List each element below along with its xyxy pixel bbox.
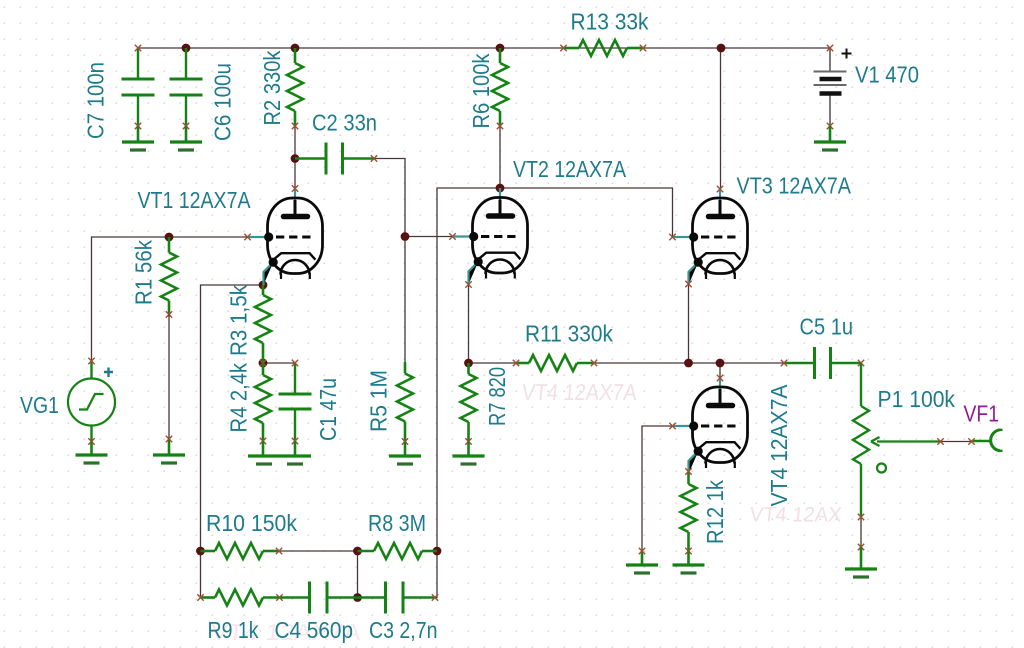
svg-text:R7 820: R7 820 <box>484 367 510 426</box>
wire VT4 anode feed <box>719 363 721 378</box>
resistor R11 <box>516 355 594 371</box>
resistor R10 <box>201 543 280 559</box>
svg-text:R11 330k: R11 330k <box>525 321 613 347</box>
wire C7 ground stub <box>137 126 140 142</box>
resistor R9 <box>201 590 280 606</box>
connector VF1 <box>972 430 1003 451</box>
ground (R5) <box>389 456 421 464</box>
node bus/R2 <box>291 44 300 53</box>
capacitor C5 <box>784 347 861 379</box>
node VT4 anode/C5 <box>716 359 725 368</box>
svg-text:R2 330k: R2 330k <box>259 50 285 125</box>
wire P1 bottom lead <box>860 517 862 547</box>
wire C1 ground stub <box>294 441 297 456</box>
resistor R2 <box>287 48 303 126</box>
svg-text:C5 1u: C5 1u <box>800 314 854 340</box>
triode tube VT3 <box>673 189 748 286</box>
svg-text:R1 56k: R1 56k <box>131 240 157 305</box>
node bus/C6 <box>182 44 191 53</box>
svg-text:C2 33n: C2 33n <box>312 110 377 136</box>
svg-text:C1 47u: C1 47u <box>315 378 341 441</box>
wire R8 node to C4 node <box>357 551 359 598</box>
svg-text:R10 150k: R10 150k <box>206 510 297 536</box>
wire R10 to R8 node <box>279 550 358 552</box>
capacitor C6 <box>170 48 203 126</box>
svg-text:VT1 12AX7A: VT1 12AX7A <box>138 187 252 213</box>
triode tube VT1 <box>248 189 323 286</box>
wire R6 bottom to VT2 anode <box>499 126 501 188</box>
resistor R7 <box>461 363 477 442</box>
svg-text:C3 2,7n: C3 2,7n <box>369 617 438 643</box>
wire C6 ground stub <box>185 126 188 142</box>
ground (R1) <box>153 455 185 463</box>
svg-text:VT2 12AX7A: VT2 12AX7A <box>513 156 627 182</box>
svg-text:R12 1k: R12 1k <box>702 480 728 544</box>
svg-text:R6 100k: R6 100k <box>468 53 494 128</box>
node feedback/R10 <box>196 547 205 556</box>
svg-text:P1 100k: P1 100k <box>878 386 956 412</box>
svg-text:VT4 12AX7A: VT4 12AX7A <box>520 379 638 405</box>
node VT1 cathode <box>259 281 268 290</box>
resistor R1 <box>161 237 177 315</box>
wire R4 ground stub <box>262 441 265 456</box>
signal source VG1 <box>68 361 115 442</box>
node R3/R4/C1 <box>259 359 268 368</box>
node R7/R11 <box>464 359 473 368</box>
resistor R6 <box>492 48 508 126</box>
node R2/C2 <box>291 154 300 163</box>
svg-text:VT4 12AX7A: VT4 12AX7A <box>766 384 792 507</box>
label VG1 plus <box>104 368 113 378</box>
wire VT3 cathode down <box>688 284 690 363</box>
capacitor C2 <box>295 143 374 175</box>
resistor R12 <box>681 472 697 552</box>
ground (V1) <box>814 142 846 150</box>
triode tube VT2 <box>453 188 528 285</box>
ground (P1) <box>845 569 877 577</box>
ground (R4 C1) <box>248 456 311 464</box>
node R10/R8 <box>353 547 362 556</box>
wire R2 bottom to VT1 anode <box>294 126 296 189</box>
node VT2 anode <box>496 184 505 193</box>
ground (C6) <box>170 142 202 150</box>
wire VT4 grid to ground <box>642 426 674 551</box>
node R8 right <box>433 547 442 556</box>
ground (VT4 grid) <box>626 565 658 573</box>
node bus/R6 <box>496 44 505 53</box>
wire VT2 anode node to VT3 grid and down to R8 <box>437 188 673 551</box>
wire VT1 cathode feedback down <box>201 285 264 598</box>
wire B+ bus <box>138 47 830 49</box>
wire V1 ground stub <box>829 126 832 142</box>
wire VT4-grid ground stub <box>641 551 644 565</box>
svg-text:R8 3M: R8 3M <box>368 510 426 536</box>
resistor R4 <box>255 363 271 441</box>
wire R7 node to R11 <box>469 362 517 364</box>
svg-text:C6 100u: C6 100u <box>210 63 236 141</box>
wire bus to VT3 anode <box>720 48 722 189</box>
wire R1 to ground <box>168 315 170 440</box>
wire VG1 ground stub <box>90 442 93 456</box>
wire P1 ground stub <box>860 547 863 569</box>
svg-text:R13 33k: R13 33k <box>571 9 649 35</box>
wire R11 to C5 row <box>594 362 784 364</box>
wire R5 ground stub <box>404 442 407 457</box>
wire R1 ground stub <box>168 439 171 455</box>
resistor R5 <box>397 362 413 442</box>
wire wiper to connector <box>941 441 972 443</box>
wire VG1 to VT1 grid <box>92 237 248 361</box>
svg-text:R4 2,4k: R4 2,4k <box>226 363 252 433</box>
svg-text:R3 1,5k: R3 1,5k <box>226 285 252 356</box>
resistor R3 <box>255 285 271 363</box>
ground (C7) <box>122 142 154 150</box>
triode tube VT4 <box>673 378 748 475</box>
wire C2 out to VT2 grid / R5 <box>374 159 405 363</box>
svg-text:VT4 12AX: VT4 12AX <box>748 504 842 527</box>
wire VT2 cathode to R7 <box>468 285 470 364</box>
node C4/C3 <box>353 593 362 602</box>
battery V1 <box>814 48 852 126</box>
resistor R13 <box>564 40 644 56</box>
wire R12 ground stub <box>687 551 690 565</box>
svg-text:R9 1k: R9 1k <box>208 617 259 643</box>
svg-text:R5 1M: R5 1M <box>366 370 392 432</box>
wire down to C3 right <box>435 551 437 598</box>
wire VT2 grid stub <box>405 236 453 238</box>
potentiometer P1 <box>853 363 941 517</box>
wire R7 ground stub <box>467 442 470 457</box>
node R1/VT1 grid <box>165 233 174 242</box>
ground (VG1) <box>76 455 108 463</box>
node VT2 grid/R5 <box>401 232 410 241</box>
svg-text:V1 470: V1 470 <box>855 62 919 88</box>
ground (R12) <box>673 565 705 573</box>
svg-text:VF1: VF1 <box>964 401 1000 427</box>
wire R3/R4 node to C1 <box>263 362 295 364</box>
capacitor C7 <box>122 48 155 126</box>
svg-text:C7 100n: C7 100n <box>83 62 109 139</box>
ground (R7) <box>453 456 485 464</box>
capacitor C4 <box>280 582 358 614</box>
node VT3 cathode/R11 row <box>684 359 693 368</box>
svg-text:VT3 12AX7A: VT3 12AX7A <box>737 172 852 198</box>
svg-text:VG1: VG1 <box>20 392 59 418</box>
svg-text:C4 560p: C4 560p <box>275 617 354 643</box>
resistor R8 <box>358 543 438 559</box>
node bus/VT3 <box>717 44 726 53</box>
capacitor C3 <box>358 582 436 614</box>
capacitor C1 <box>279 363 312 441</box>
